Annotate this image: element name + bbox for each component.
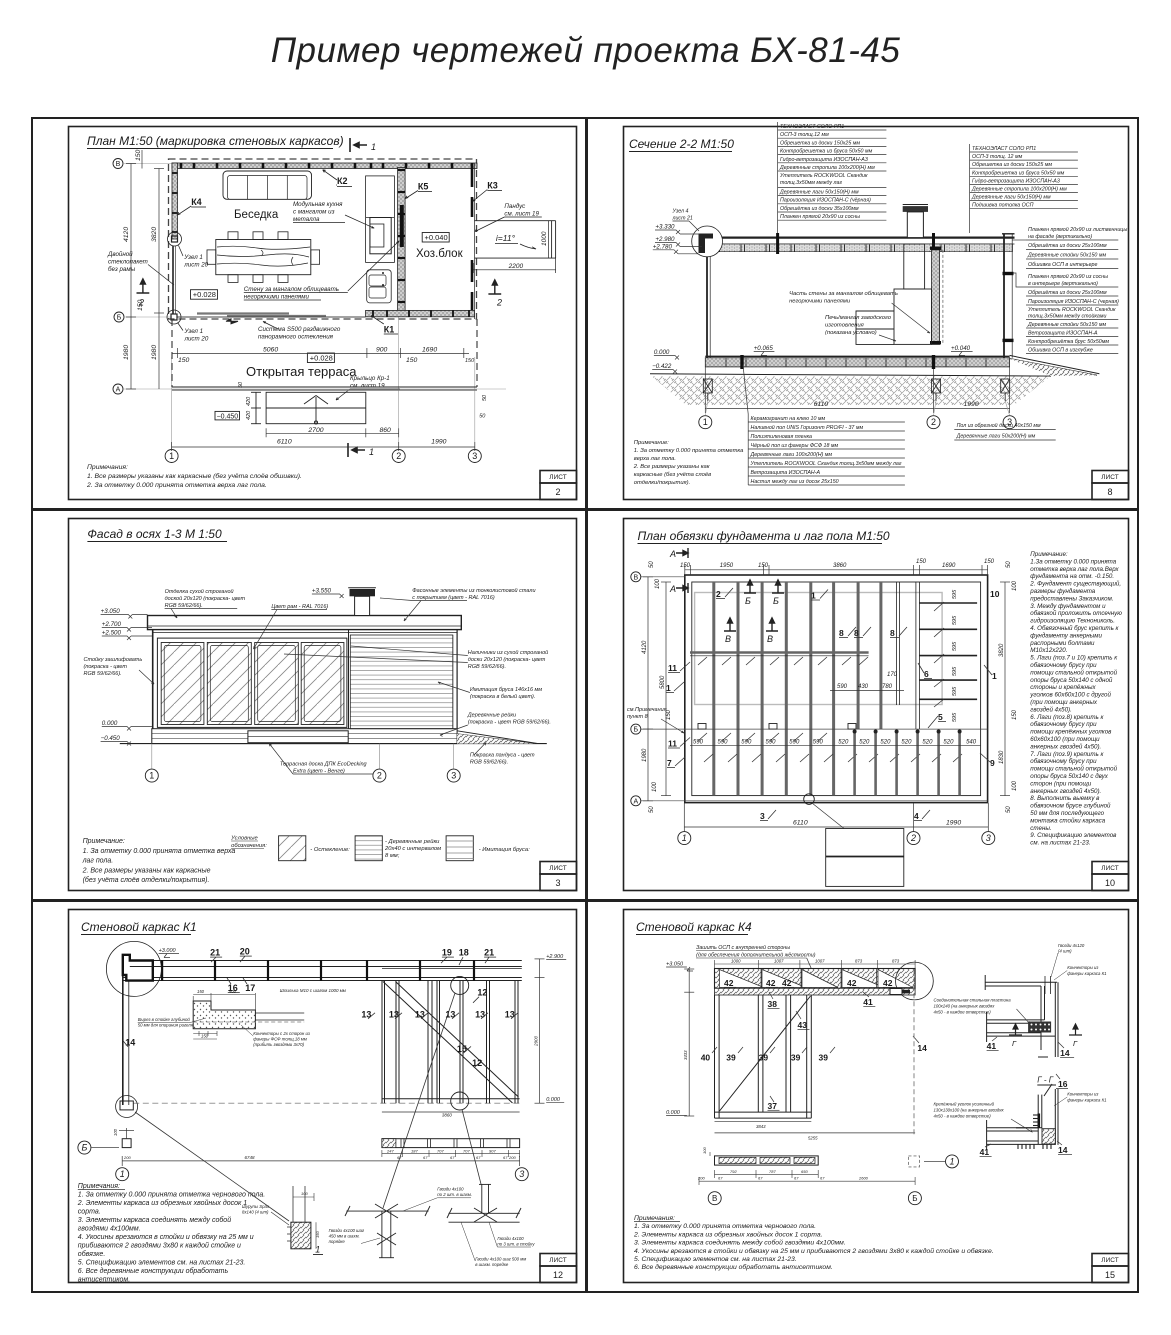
svg-text:6. Все деревянные конструкции: 6. Все деревянные конструкции обработать <box>78 1267 229 1275</box>
svg-text:67: 67 <box>758 1175 763 1180</box>
svg-text:150: 150 <box>984 559 995 565</box>
svg-text:2200: 2200 <box>508 263 524 270</box>
svg-text:38: 38 <box>768 999 778 1009</box>
svg-text:Вырез в стойке глубиной: Вырез в стойке глубиной <box>138 1017 191 1022</box>
svg-text:фанеры каркаса К1: фанеры каркаса К1 <box>1067 1098 1107 1103</box>
svg-text:Система S500 раздвижного: Система S500 раздвижного <box>258 326 341 333</box>
svg-text:Деревянные лаги 100х200(Н) мм: Деревянные лаги 100х200(Н) мм <box>750 452 833 458</box>
svg-text:150: 150 <box>666 709 672 720</box>
svg-text:отметка верха лаг пола.Верх: отметка верха лаг пола.Верх <box>1030 566 1119 573</box>
svg-text:Деревянные стропила 100х200(Н): Деревянные стропила 100х200(Н) мм <box>779 165 875 171</box>
svg-text:по 3 шт. в стойку: по 3 шт. в стойку <box>497 1242 535 1247</box>
svg-text:150: 150 <box>137 299 144 311</box>
svg-text:12: 12 <box>553 1270 563 1280</box>
svg-text:фанеры ФСФ толщ.18 мм: фанеры ФСФ толщ.18 мм <box>253 1037 307 1042</box>
svg-text:ЛИСТ: ЛИСТ <box>549 865 566 872</box>
svg-text:1: 1 <box>992 671 997 681</box>
svg-text:RGB 59/62/66).: RGB 59/62/66). <box>165 603 203 609</box>
svg-text:40: 40 <box>701 1052 711 1062</box>
svg-text:Стеновой каркас К4: Стеновой каркас К4 <box>636 920 752 934</box>
svg-text:14: 14 <box>1060 1048 1070 1058</box>
svg-text:50: 50 <box>1006 806 1012 813</box>
svg-text:60х60х100 (при помощи: 60х60х100 (при помощи <box>1030 736 1100 743</box>
svg-text:5. Спецификацию элементов см.: 5. Спецификацию элементов см. на листах … <box>634 1256 797 1263</box>
svg-text:17: 17 <box>245 983 255 993</box>
svg-text:1. За отметку 0.000 принята от: 1. За отметку 0.000 принята отметка верх… <box>83 848 236 855</box>
svg-text:К1: К1 <box>384 325 395 335</box>
svg-text:лист 21: лист 21 <box>672 215 693 221</box>
svg-text:21: 21 <box>484 948 494 958</box>
svg-text:негорючими панелями: негорючими панелями <box>789 299 851 305</box>
svg-text:см. лист 19: см. лист 19 <box>350 383 385 390</box>
svg-text:5255: 5255 <box>808 1136 818 1141</box>
svg-text:520: 520 <box>880 740 891 746</box>
svg-text:стороны и крепёжных: стороны и крепёжных <box>1030 684 1096 691</box>
svg-text:по 2 шт. в шахм.: по 2 шт. в шахм. <box>437 1192 472 1197</box>
svg-text:Террасная доска ДПК EcoDecking: Террасная доска ДПК EcoDecking <box>280 762 368 768</box>
svg-text:150: 150 <box>135 149 142 161</box>
svg-text:2. Все размеры указаны как: 2. Все размеры указаны как <box>633 464 710 470</box>
svg-text:4х50 - в каждое отверстие): 4х50 - в каждое отверстие) <box>934 1010 992 1015</box>
svg-text:1990: 1990 <box>946 820 961 827</box>
svg-text:обвязочному брусу при: обвязочному брусу при <box>1030 662 1097 669</box>
svg-text:540: 540 <box>966 740 977 746</box>
svg-text:20: 20 <box>240 947 250 957</box>
svg-text:В: В <box>116 161 121 168</box>
svg-text:4. Укосины врезаются в стойки: 4. Укосины врезаются в стойки и обвязку … <box>634 1247 994 1255</box>
svg-text:отделки/покрытия).: отделки/покрытия). <box>634 480 690 486</box>
svg-text:(для обеспечения дополнительно: (для обеспечения дополнительной жёсткост… <box>696 952 816 959</box>
svg-text:ЛИСТ: ЛИСТ <box>1101 1257 1118 1264</box>
svg-text:толщ.3х50мм между лаг: толщ.3х50мм между лаг <box>780 180 842 186</box>
svg-text:обвязочному брусу при: обвязочному брусу при <box>1030 758 1097 765</box>
svg-text:фундамента на отм. -0.150.: фундамента на отм. -0.150. <box>1030 573 1114 580</box>
svg-text:Двойной: Двойной <box>107 251 133 258</box>
svg-text:9. Спецификацию элементов: 9. Спецификацию элементов <box>1030 832 1117 839</box>
svg-text:780: 780 <box>882 684 893 690</box>
svg-text:43: 43 <box>798 1020 808 1030</box>
svg-text:обвязочном брусе глубиной: обвязочном брусе глубиной <box>1030 803 1111 810</box>
svg-text:В: В <box>725 634 731 644</box>
svg-text:1: 1 <box>169 451 174 461</box>
svg-text:+2.980: +2.980 <box>655 236 675 243</box>
svg-text:150: 150 <box>758 563 769 569</box>
svg-text:Гидро-ветрозащита ИЗОСПАН-А3: Гидро-ветрозащита ИЗОСПАН-А3 <box>972 178 1060 184</box>
svg-text:Коннекторы из: Коннекторы из <box>1067 965 1098 970</box>
svg-text:1.За отметку 0.000 принята: 1.За отметку 0.000 принята <box>1030 558 1116 565</box>
svg-text:595: 595 <box>952 615 958 625</box>
svg-text:(прибить гвоздями 3х70): (прибить гвоздями 3х70) <box>253 1042 304 1047</box>
svg-text:3: 3 <box>519 1169 524 1179</box>
svg-text:650: 650 <box>801 1169 808 1174</box>
svg-text:130х130х100 (на анкерных гвозд: 130х130х100 (на анкерных гвоздях <box>934 1108 1005 1113</box>
svg-text:+3.330: +3.330 <box>655 224 675 231</box>
svg-text:А: А <box>669 584 676 594</box>
svg-text:6. Все деревянные конструкции: 6. Все деревянные конструкции обработать… <box>634 1263 833 1271</box>
svg-text:792: 792 <box>730 1169 737 1174</box>
svg-text:обвязкой проложить отсечную: обвязкой проложить отсечную <box>1030 610 1122 617</box>
svg-text:Наливной пол UNIS Горизонт PRO: Наливной пол UNIS Горизонт PRO/FI - 37 м… <box>751 424 864 431</box>
svg-text:К3: К3 <box>487 181 498 191</box>
svg-text:толщ.3х50мм между стойками: толщ.3х50мм между стойками <box>1028 313 1106 320</box>
svg-text:150: 150 <box>916 559 927 565</box>
svg-text:(4 шт): (4 шт) <box>1058 949 1072 954</box>
svg-text:873: 873 <box>855 959 863 964</box>
svg-text:В: В <box>633 574 638 581</box>
svg-text:М10х12х220.: М10х12х220. <box>1030 647 1067 654</box>
svg-text:Примечание:: Примечание: <box>83 838 125 845</box>
svg-text:Extra (цвет - Венге): Extra (цвет - Венге) <box>293 769 345 775</box>
svg-text:3. Элементы каркаса соединять: 3. Элементы каркаса соединять между собо… <box>634 1239 846 1247</box>
svg-text:ОСП-3 толщ.12 мм: ОСП-3 толщ.12 мм <box>780 132 829 138</box>
svg-text:14: 14 <box>917 1043 927 1053</box>
svg-text:Обрешётка из доски 25х100мм: Обрешётка из доски 25х100мм <box>1028 243 1107 249</box>
svg-text:Шпилька М10 с шагом 1000 мм: Шпилька М10 с шагом 1000 мм <box>280 988 346 993</box>
svg-text:каркасные (без учёта слоёв: каркасные (без учёта слоёв <box>634 472 711 478</box>
svg-text:430: 430 <box>858 684 869 690</box>
svg-text:Контробрешетка из бруса 50х50: Контробрешетка из бруса 50х50 мм <box>972 170 1065 176</box>
svg-text:Примечания:: Примечания: <box>87 464 128 471</box>
svg-text:8: 8 <box>854 628 859 638</box>
svg-text:595: 595 <box>952 686 958 696</box>
svg-text:14: 14 <box>1058 1145 1068 1155</box>
svg-text:2: 2 <box>555 487 560 497</box>
svg-text:фундаменту анкерными: фундаменту анкерными <box>1030 632 1102 639</box>
svg-text:К2: К2 <box>337 176 348 186</box>
svg-text:707: 707 <box>463 1148 470 1153</box>
svg-text:1. За отметку 0.000 принята от: 1. За отметку 0.000 принята отметка черн… <box>78 1192 265 1199</box>
svg-text:0.000: 0.000 <box>666 1110 681 1116</box>
svg-text:67: 67 <box>476 1155 481 1160</box>
svg-text:5. Спецификацию элементов см.: 5. Спецификацию элементов см. на листах … <box>78 1260 246 1267</box>
svg-text:12: 12 <box>472 1058 482 1068</box>
svg-text:50: 50 <box>482 394 488 401</box>
svg-text:Обшивка ОСП в изглубже: Обшивка ОСП в изглубже <box>1028 348 1093 354</box>
svg-text:8х140 (4 шт): 8х140 (4 шт) <box>242 1210 269 1215</box>
svg-text:Планкен прямой 20х90 из сосны: Планкен прямой 20х90 из сосны <box>1028 273 1108 280</box>
svg-text:4120: 4120 <box>642 640 648 654</box>
svg-text:ЛИСТ: ЛИСТ <box>549 1257 566 1264</box>
svg-text:лист 20: лист 20 <box>183 262 208 269</box>
svg-text:см. лист 19: см. лист 19 <box>504 211 539 218</box>
svg-text:1: 1 <box>315 1245 320 1255</box>
svg-text:150: 150 <box>315 1231 320 1238</box>
svg-text:520: 520 <box>859 740 870 746</box>
svg-text:Пароизоляция ИЗОСПАН-С (чёрная: Пароизоляция ИЗОСПАН-С (чёрная) <box>780 198 871 204</box>
svg-text:порядке: порядке <box>329 1239 346 1244</box>
svg-text:помощи стальной открытой: помощи стальной открытой <box>1030 766 1117 773</box>
svg-text:247: 247 <box>386 1148 394 1153</box>
svg-text:Цвет рам - RAL 7016): Цвет рам - RAL 7016) <box>271 604 328 610</box>
svg-text:7. Лаги (поз.9) крепить к: 7. Лаги (поз.9) крепить к <box>1030 751 1104 758</box>
svg-text:ОСП-3 толщ. 12 мм: ОСП-3 толщ. 12 мм <box>972 154 1023 160</box>
svg-text:см.Примечания: см.Примечания <box>627 707 667 713</box>
svg-text:предоставлены Заказчиком.: предоставлены Заказчиком. <box>1030 595 1113 602</box>
svg-text:50 мм для опирания ригеля: 50 мм для опирания ригеля <box>138 1023 194 1028</box>
svg-text:Шурупы Spax: Шурупы Spax <box>242 1204 270 1209</box>
svg-text:590: 590 <box>741 740 752 746</box>
svg-text:13: 13 <box>389 1009 399 1019</box>
svg-text:1000: 1000 <box>541 231 548 246</box>
svg-text:Контробрешётка брус 50х50мм: Контробрешётка брус 50х50мм <box>1028 339 1109 345</box>
svg-text:К4: К4 <box>191 197 202 207</box>
svg-text:42: 42 <box>724 978 734 988</box>
svg-text:Обрешётка из доски 25х100мм: Обрешётка из доски 25х100мм <box>1028 290 1107 296</box>
svg-text:Гвозди 4х100 шаг: Гвозди 4х100 шаг <box>329 1228 365 1233</box>
svg-text:Деревянные лаги 50х150(Н) мм: Деревянные лаги 50х150(Н) мм <box>779 189 859 195</box>
svg-text:3860: 3860 <box>833 563 847 569</box>
svg-text:Б: Б <box>745 596 751 606</box>
svg-text:Деревянные лаги 50х200(Н) мм: Деревянные лаги 50х200(Н) мм <box>956 434 1036 440</box>
svg-text:на фасаде (вертикально): на фасаде (вертикально) <box>1028 234 1092 240</box>
svg-text:3433: 3433 <box>683 1050 688 1060</box>
svg-text:см. на листах 21-23.: см. на листах 21-23. <box>1030 840 1090 847</box>
svg-text:39: 39 <box>819 1052 829 1062</box>
svg-text:13: 13 <box>505 1009 515 1019</box>
svg-text:Наличники из сухой строганой: Наличники из сухой строганой <box>468 649 548 656</box>
svg-text:Стеновой каркас К1: Стеновой каркас К1 <box>81 920 197 934</box>
svg-text:−0.422: −0.422 <box>652 363 672 370</box>
svg-text:Обрешетка из доски 150х25 мм: Обрешетка из доски 150х25 мм <box>972 162 1052 168</box>
svg-text:6: 6 <box>924 669 929 679</box>
svg-text:Примечание:: Примечание: <box>634 440 669 446</box>
svg-text:18: 18 <box>459 948 469 958</box>
svg-text:Б: Б <box>81 1143 87 1153</box>
svg-text:стены.: стены. <box>1030 825 1051 832</box>
svg-text:+0.040: +0.040 <box>425 233 448 242</box>
svg-text:Утеплитель ROCKWOOL Скандик то: Утеплитель ROCKWOOL Скандик толщ.3х50мм … <box>751 461 902 467</box>
svg-text:+2.780: +2.780 <box>653 243 673 250</box>
svg-text:2700: 2700 <box>307 427 323 434</box>
svg-text:анкерных гвоздей 4х50).: анкерных гвоздей 4х50). <box>1030 788 1101 795</box>
svg-text:В: В <box>767 634 773 644</box>
svg-text:А: А <box>669 549 676 559</box>
svg-text:+3.050: +3.050 <box>666 962 684 968</box>
svg-text:анкерных гвоздей 4х50).: анкерных гвоздей 4х50). <box>1030 743 1101 750</box>
svg-text:Условные: Условные <box>230 836 258 842</box>
svg-text:707: 707 <box>437 1148 444 1153</box>
svg-text:590: 590 <box>693 740 704 746</box>
svg-text:3: 3 <box>760 811 765 821</box>
svg-text:доски 20х120 (покраска- цвет: доски 20х120 (покраска- цвет <box>468 657 546 663</box>
svg-text:787: 787 <box>769 1169 776 1174</box>
svg-text:Пол из обрезной доски 40х150 м: Пол из обрезной доски 40х150 мм <box>957 422 1041 429</box>
svg-text:Б: Б <box>773 596 779 606</box>
svg-text:- Имитация бруса:: - Имитация бруса: <box>479 847 530 853</box>
svg-text:15: 15 <box>1105 1270 1115 1280</box>
svg-text:595: 595 <box>952 666 958 676</box>
svg-text:42: 42 <box>782 978 792 988</box>
svg-text:Б: Б <box>634 727 639 734</box>
svg-text:+0.065: +0.065 <box>754 345 774 352</box>
svg-text:520: 520 <box>901 740 912 746</box>
svg-text:Пандус: Пандус <box>504 203 526 210</box>
svg-text:1980: 1980 <box>642 748 648 762</box>
svg-text:Узел 1: Узел 1 <box>183 254 203 261</box>
svg-text:ТЕХНОЭЛАСТ СОЛО РП1: ТЕХНОЭЛАСТ СОЛО РП1 <box>972 146 1036 152</box>
svg-text:Фасонные элементы из тонколист: Фасонные элементы из тонколистовой стали <box>412 587 535 594</box>
svg-text:Примечания:: Примечания: <box>634 1215 675 1222</box>
svg-text:- Деревянные рейки: - Деревянные рейки <box>385 838 440 845</box>
svg-text:595: 595 <box>952 641 958 651</box>
svg-text:6110: 6110 <box>793 820 808 827</box>
svg-text:Деревянные рейки: Деревянные рейки <box>467 712 516 719</box>
svg-text:50: 50 <box>649 806 655 813</box>
svg-text:Г: Г <box>1012 1039 1017 1048</box>
svg-text:(показана условно): (показана условно) <box>825 330 877 336</box>
svg-text:8 мм;: 8 мм; <box>385 853 400 859</box>
svg-text:обозначения:: обозначения: <box>231 843 267 849</box>
svg-text:Утеплитель ROCKWOOL Скандик: Утеплитель ROCKWOOL Скандик <box>1028 307 1116 313</box>
svg-text:Б: Б <box>117 315 122 322</box>
svg-text:стеклопакет: стеклопакет <box>108 259 148 266</box>
svg-text:41: 41 <box>863 997 873 1007</box>
svg-text:+3.550: +3.550 <box>312 588 332 595</box>
svg-text:41: 41 <box>980 1147 990 1157</box>
svg-text:13: 13 <box>475 1009 485 1019</box>
svg-text:3: 3 <box>555 878 560 888</box>
svg-text:13: 13 <box>361 1009 371 1019</box>
svg-text:Отделка сухой строганой: Отделка сухой строганой <box>165 588 234 595</box>
svg-text:ЛИСТ: ЛИСТ <box>549 474 566 481</box>
svg-text:лаг пола.: лаг пола. <box>82 858 114 865</box>
svg-text:размеры фундамента: размеры фундамента <box>1029 588 1096 595</box>
svg-text:187: 187 <box>411 1148 418 1153</box>
svg-text:антисептиком.: антисептиком. <box>78 1277 130 1284</box>
svg-text:4. Обвязочный брус крепить к: 4. Обвязочный брус крепить к <box>1030 625 1119 632</box>
svg-text:опоры бруса 50х140 с двух: опоры бруса 50х140 с двух <box>1030 773 1108 780</box>
svg-text:гвоздями 4х100мм.: гвоздями 4х100мм. <box>78 1225 141 1233</box>
svg-text:2. Фундамент существующий,: 2. Фундамент существующий, <box>1029 581 1121 588</box>
svg-text:200: 200 <box>123 1155 131 1160</box>
svg-text:Гвозди 4х120: Гвозди 4х120 <box>1058 943 1085 948</box>
svg-text:150: 150 <box>1012 709 1018 720</box>
svg-text:8: 8 <box>1107 487 1112 497</box>
svg-text:Пароизоляция ИЗОСПАН-С (черная: Пароизоляция ИЗОСПАН-С (черная) <box>1028 299 1119 305</box>
svg-text:11: 11 <box>668 739 677 749</box>
svg-text:Деревянные лаги 50х150(Н) мм: Деревянные лаги 50х150(Н) мм <box>971 195 1051 201</box>
svg-text:907: 907 <box>489 1148 496 1153</box>
svg-text:4: 4 <box>914 811 919 821</box>
svg-text:Керамогранит на клею 10 мм: Керамогранит на клею 10 мм <box>751 416 826 422</box>
svg-text:Фасад в осях 1-3 М 1:50: Фасад в осях 1-3 М 1:50 <box>87 527 222 541</box>
svg-text:1007: 1007 <box>774 959 784 964</box>
svg-text:металла: металла <box>293 216 320 223</box>
svg-text:1: 1 <box>949 1156 954 1166</box>
svg-text:Примечание:: Примечание: <box>1030 551 1068 558</box>
svg-text:Гвозди 4х100 шаг 500 мм: Гвозди 4х100 шаг 500 мм <box>475 1257 526 1262</box>
svg-text:11: 11 <box>668 663 677 673</box>
svg-text:Сечение 2-2 М1:50: Сечение 2-2 М1:50 <box>629 137 734 151</box>
svg-text:3820: 3820 <box>151 227 158 242</box>
svg-text:Крепёжный уголок усиленный: Крепёжный уголок усиленный <box>934 1102 995 1107</box>
svg-text:150: 150 <box>680 563 691 569</box>
svg-text:860: 860 <box>380 427 392 434</box>
svg-text:2: 2 <box>496 298 502 308</box>
svg-text:590: 590 <box>837 684 848 690</box>
svg-text:Деревянные стойки 50х150 мм: Деревянные стойки 50х150 мм <box>1027 252 1106 259</box>
svg-text:монтажа стойки каркаса: монтажа стойки каркаса <box>1030 817 1105 824</box>
svg-text:Часть стены за мангалом облице: Часть стены за мангалом облицевать <box>789 291 898 297</box>
svg-text:Имитация бруса 146х16 мм: Имитация бруса 146х16 мм <box>470 687 542 693</box>
svg-text:50: 50 <box>1006 561 1012 568</box>
svg-text:В: В <box>712 1194 717 1203</box>
svg-text:2: 2 <box>396 451 401 461</box>
svg-text:100: 100 <box>652 781 658 792</box>
svg-text:сторон (при помощи: сторон (при помощи <box>1030 780 1091 787</box>
svg-text:2. За отметку 0.000 принята от: 2. За отметку 0.000 принята отметка верх… <box>86 482 267 489</box>
svg-text:Обрешетка из доски 150х25 мм: Обрешетка из доски 150х25 мм <box>780 140 860 146</box>
svg-text:Узел 4: Узел 4 <box>673 208 689 214</box>
svg-text:Стену за мангалом облицевать: Стену за мангалом облицевать <box>244 286 339 293</box>
svg-text:400: 400 <box>229 989 237 994</box>
svg-text:К5: К5 <box>418 182 429 192</box>
svg-text:Беседка: Беседка <box>234 209 279 221</box>
svg-text:200: 200 <box>697 1175 705 1180</box>
svg-text:200: 200 <box>508 1155 516 1160</box>
svg-text:Г: Г <box>1073 1039 1078 1048</box>
svg-text:150: 150 <box>178 357 190 364</box>
svg-text:3: 3 <box>451 771 456 781</box>
svg-text:2600: 2600 <box>858 1175 869 1180</box>
svg-text:50: 50 <box>479 414 486 420</box>
svg-text:панорамного остекления: панорамного остекления <box>258 334 334 341</box>
svg-text:RGB 59/62/66).: RGB 59/62/66). <box>468 664 506 670</box>
svg-text:8. Выполнить выемку в: 8. Выполнить выемку в <box>1030 795 1100 802</box>
svg-text:фанеры каркаса К1: фанеры каркаса К1 <box>1067 971 1107 976</box>
svg-text:помощи стальной открытой: помощи стальной открытой <box>1030 669 1117 676</box>
svg-text:4120: 4120 <box>123 227 130 242</box>
svg-text:0.000: 0.000 <box>654 349 670 356</box>
svg-text:50 мм для последующего: 50 мм для последующего <box>1030 810 1104 817</box>
svg-text:Деревянные стропила 100х200(Н): Деревянные стропила 100х200(Н) мм <box>971 187 1067 193</box>
svg-text:1: 1 <box>682 833 687 843</box>
svg-text:+3.050: +3.050 <box>101 608 121 615</box>
svg-text:уголков 60х60х100 с другой: уголков 60х60х100 с другой <box>1029 692 1111 699</box>
svg-text:+0.028: +0.028 <box>310 354 333 363</box>
svg-text:5060: 5060 <box>263 347 278 354</box>
svg-text:1000: 1000 <box>731 959 741 964</box>
svg-text:RGB 59/62/66).: RGB 59/62/66). <box>470 760 508 766</box>
svg-text:Хоз.блок: Хоз.блок <box>416 248 464 260</box>
svg-text:590: 590 <box>766 740 777 746</box>
svg-text:12: 12 <box>477 987 487 997</box>
svg-text:67: 67 <box>820 1175 825 1180</box>
svg-text:Коннекторы из: Коннекторы из <box>1067 1092 1098 1097</box>
svg-text:ЛИСТ: ЛИСТ <box>1101 474 1118 481</box>
svg-text:Чёрный пол из фанеры ФСФ 18 мм: Чёрный пол из фанеры ФСФ 18 мм <box>751 442 839 449</box>
svg-text:100х240 (на анкерных гвоздях: 100х240 (на анкерных гвоздях <box>934 1004 996 1009</box>
svg-text:67: 67 <box>397 1155 402 1160</box>
svg-text:13: 13 <box>415 1009 425 1019</box>
svg-text:150: 150 <box>406 357 418 364</box>
svg-text:2: 2 <box>377 771 382 781</box>
svg-text:изготовления: изготовления <box>825 323 864 329</box>
svg-text:67: 67 <box>794 1175 799 1180</box>
svg-text:+3.000: +3.000 <box>159 948 177 954</box>
svg-text:1980: 1980 <box>123 345 130 360</box>
svg-text:2. Элементы каркаса из обрезны: 2. Элементы каркаса из обрезных хвойных … <box>77 1199 247 1207</box>
svg-text:590: 590 <box>789 740 800 746</box>
svg-text:10: 10 <box>990 589 1000 599</box>
svg-text:Печь/мангал заводского: Печь/мангал заводского <box>825 315 892 321</box>
svg-text:+2.900: +2.900 <box>546 954 564 960</box>
svg-text:15: 15 <box>457 1044 467 1054</box>
svg-text:4. Укосины врезаются в стойки: 4. Укосины врезаются в стойки и обвязку … <box>78 1233 254 1241</box>
svg-text:41: 41 <box>987 1041 997 1051</box>
svg-text:Обрешётка из доски 35х100мм: Обрешётка из доски 35х100мм <box>780 206 859 212</box>
svg-text:+2.700: +2.700 <box>102 621 122 628</box>
